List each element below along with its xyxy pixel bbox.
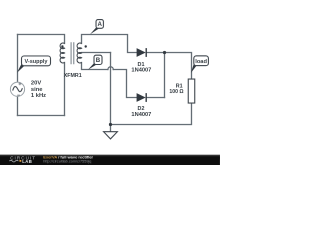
transformer core lines [71, 42, 74, 64]
wire node B row to D2 [113, 70, 136, 98]
svg-text:A: A [98, 21, 103, 28]
svg-text:1 kHz: 1 kHz [31, 93, 46, 99]
wire secondary top to node A row [82, 34, 137, 52]
diode D2 [131, 93, 151, 118]
svg-text:V-supply: V-supply [25, 59, 49, 65]
wire center tap vertical to ground [109, 53, 111, 132]
svg-text:http://circuitlab.com/c/7559jq: http://circuitlab.com/c/7559jq [43, 160, 91, 164]
svg-text:LAB: LAB [22, 159, 32, 164]
svg-text:1N4007: 1N4007 [131, 112, 151, 118]
footer logo orange square [19, 160, 21, 162]
svg-text:sine: sine [31, 87, 43, 93]
transformer XFMR1 primary winding [60, 43, 64, 63]
junction dot at D1 output node [163, 51, 166, 54]
node label load [191, 56, 209, 73]
wire center tap horizontal [82, 51, 111, 53]
wire junction to load branch [165, 53, 192, 80]
node label B [88, 55, 102, 70]
ground symbol [104, 132, 118, 139]
voltage source sine mark [13, 86, 23, 91]
svg-text:20V: 20V [31, 81, 41, 87]
junction dot at ground node [109, 123, 112, 126]
wire secondary bottom (node B row) left part [82, 62, 108, 69]
wire D2 cathode to vertical [146, 97, 164, 99]
transformer primary phase dot [61, 45, 63, 47]
source value label 20V sine 1 kHz [31, 81, 46, 100]
svg-text:B: B [96, 57, 101, 64]
wire R1 bottom to ground row [110, 103, 191, 125]
wire primary left lower [16, 96, 18, 115]
svg-text:load: load [195, 59, 207, 65]
wire D1 cathode to junction [146, 52, 164, 54]
wire primary bottom [17, 114, 64, 116]
footer logo sine squiggle [9, 160, 18, 162]
voltage source V-supply circle [10, 82, 24, 96]
svg-text:XFMR1: XFMR1 [64, 73, 82, 79]
wire junction down to D2 row [163, 53, 165, 98]
voltage source minus sign [17, 94, 20, 96]
wire hop over center tap [108, 67, 113, 70]
wire primary right below coil [63, 62, 65, 115]
diode D1 [131, 48, 151, 74]
node label V-supply [17, 56, 51, 73]
svg-text:1N4007: 1N4007 [131, 68, 151, 74]
transformer XFMR1 secondary winding [77, 43, 81, 63]
transformer secondary phase dot [85, 45, 87, 47]
wire primary top [18, 34, 65, 43]
voltage source plus sign [18, 82, 21, 85]
svg-text:100 Ω: 100 Ω [169, 89, 183, 95]
wire primary left upper [17, 34, 19, 82]
node label A [90, 20, 104, 35]
resistor R1 (box style) [188, 79, 195, 103]
footer bar [0, 155, 220, 165]
